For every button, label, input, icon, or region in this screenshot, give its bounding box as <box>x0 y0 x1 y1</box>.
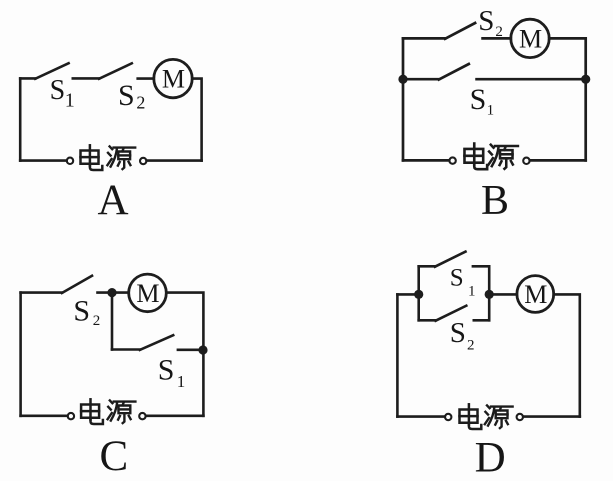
svg-text:M: M <box>524 280 547 309</box>
wire: D bottom right segment <box>523 415 580 418</box>
svg-text:M: M <box>162 64 185 93</box>
switch S2 blade (open) <box>62 276 92 293</box>
wire: C lower branch left of switch S1 <box>112 348 140 351</box>
wire: D bottom left segment <box>397 415 444 418</box>
svg-text:S: S <box>158 354 175 387</box>
wire: C lower branch right segment <box>178 348 204 351</box>
label 源 (battery D) <box>485 405 513 428</box>
svg-text:C: C <box>100 433 129 480</box>
wire: D left vertical <box>396 294 399 416</box>
wire: B middle branch right segment <box>477 78 586 81</box>
wire: A between S1 and S2 <box>73 77 99 80</box>
svg-text:S: S <box>118 79 135 112</box>
wire: D motor to right corner, right vertical <box>554 294 580 416</box>
svg-text:M: M <box>519 24 542 53</box>
wire: A bottom right segment <box>147 159 202 162</box>
battery terminal (B right) <box>523 158 529 164</box>
wire: B motor to top-right corner, right vertical <box>549 38 586 160</box>
wire: C from S2 contact to junction <box>98 291 113 294</box>
switch S1 blade (open) <box>35 63 68 79</box>
label 源 (battery B) <box>488 145 517 169</box>
svg-text:2: 2 <box>467 338 475 354</box>
svg-text:1: 1 <box>177 372 186 391</box>
label 源 (battery A) <box>107 146 135 169</box>
wire: D upper branch right bracket <box>473 265 489 268</box>
wire: A left vertical <box>19 78 22 160</box>
wire: A from S2 contact to motor <box>138 77 154 80</box>
battery terminal (D left) <box>445 414 451 420</box>
junction dot (D left) <box>414 290 423 299</box>
svg-text:2: 2 <box>136 92 145 112</box>
svg-text:1: 1 <box>65 89 75 111</box>
svg-text:1: 1 <box>487 102 495 118</box>
svg-text:A: A <box>97 177 128 224</box>
junction dot (B left) <box>398 75 407 84</box>
wire: D right parallel stub (vertical) <box>488 266 491 320</box>
switch S1 blade (open) <box>140 335 173 350</box>
wire: A bottom left segment <box>20 159 66 162</box>
wire: D left parallel stub (vertical) <box>417 266 420 320</box>
switch S1 blade (open) <box>435 252 466 267</box>
wire: C vertical stub from junction down <box>111 293 114 350</box>
svg-text:M: M <box>136 279 159 308</box>
svg-text:S: S <box>470 83 487 116</box>
wire: D upper branch left segment <box>419 265 435 268</box>
label 电 (battery B) <box>464 144 487 170</box>
wire: B bottom right segment <box>530 159 586 162</box>
label 电 (battery C) <box>81 399 103 424</box>
label 电 (battery D) <box>460 404 482 429</box>
label 电 (battery A) <box>81 145 103 170</box>
svg-text:S: S <box>450 317 466 349</box>
battery terminal (D right) <box>517 414 523 420</box>
motor U2 circle <box>511 19 549 57</box>
svg-text:S: S <box>50 75 66 106</box>
wire: C bottom left segment <box>21 414 68 417</box>
junction dot (B right) <box>581 75 590 84</box>
motor U3 circle <box>129 274 167 312</box>
switch S2 blade (open) <box>445 23 475 39</box>
wire: D lower branch right segment <box>474 319 489 322</box>
motor U1 circle <box>154 59 192 97</box>
svg-text:B: B <box>481 178 509 224</box>
battery terminal (C left) <box>68 413 74 419</box>
battery terminal (left, open circle) <box>67 158 73 164</box>
wire: A motor to top-right corner and right vertical <box>192 79 201 161</box>
junction dot (D right) <box>485 290 494 299</box>
battery terminal (B left) <box>449 157 455 163</box>
wire: B bottom left segment <box>403 159 449 162</box>
wire: D junction to motor <box>489 293 517 296</box>
switch S2 blade (open) <box>436 306 467 321</box>
wire: D lower branch left segment <box>419 319 436 322</box>
wire: B from S2 contact to motor <box>483 37 511 40</box>
wire: C junction to motor <box>112 291 129 294</box>
label 源 (battery C) <box>108 400 136 423</box>
switch S1 blade (open) <box>439 64 469 80</box>
wire: C motor to right corner, right vertical upper <box>166 293 203 416</box>
junction dot (C top) <box>107 288 116 297</box>
wire: B middle branch left of switch S1 <box>403 78 439 81</box>
svg-text:1: 1 <box>468 284 476 300</box>
svg-text:S: S <box>73 294 90 327</box>
svg-text:S: S <box>450 264 464 291</box>
svg-text:2: 2 <box>495 24 503 40</box>
wire: C bottom right segment <box>146 414 204 417</box>
wire: D left horizontal to junction <box>397 293 418 296</box>
motor U4 circle <box>517 276 554 313</box>
wire: C left vertical <box>19 293 22 416</box>
switch S2 blade (open) <box>99 63 132 79</box>
svg-text:S: S <box>478 5 494 37</box>
wire: A top, left segment to switch S1 <box>20 77 35 80</box>
svg-text:2: 2 <box>93 313 101 329</box>
wire: B top, left segment to switch S2 <box>403 37 445 40</box>
battery terminal (C right) <box>139 413 145 419</box>
junction dot (C right) <box>198 345 207 354</box>
svg-text:D: D <box>475 435 506 481</box>
battery terminal (right, open circle) <box>140 158 146 164</box>
wire: C top, left segment to switch S2 <box>21 291 62 294</box>
wire: B left vertical <box>402 38 405 160</box>
